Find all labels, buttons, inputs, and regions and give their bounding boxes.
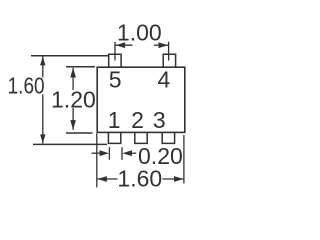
dimension 1.00: extension tick at pin4 center	[168, 42, 170, 61]
dimension 0.20: right leader line	[131, 152, 137, 154]
svg-text:1: 1	[108, 107, 121, 133]
svg-text:1.00: 1.00	[117, 20, 162, 46]
dimension 0.20: right extension tick (pin1 right edge)	[121, 147, 123, 160]
dimension 1.20: label background	[52, 90, 95, 108]
dimension 1.20: down arrowhead	[70, 120, 76, 130]
dimension 1.60 bottom: left arrowhead pointing left	[97, 176, 107, 182]
dimension 0.20: left arrowhead pointing right	[100, 150, 110, 156]
svg-text:1.60: 1.60	[8, 73, 45, 99]
pin 2 lead (bottom-middle)	[135, 132, 147, 143]
dimension 0.20: right arrowhead pointing left	[122, 150, 131, 156]
svg-text:1.20: 1.20	[51, 86, 96, 112]
pin 4 lead (top-right)	[163, 54, 175, 67]
dimension 1.20: up arrowhead	[70, 68, 76, 78]
svg-text:2: 2	[131, 107, 144, 133]
dimension 1.60 left: bottom extension line (bottom of pins)	[33, 143, 107, 145]
dimension 1.60 left: label background	[7, 78, 45, 95]
dimension 1.60 left: up arrowhead	[40, 56, 45, 65]
pin 1 lead (bottom-left)	[108, 132, 120, 143]
pin 5 lead (top-left)	[109, 54, 121, 67]
dimension 1.20: dimension line	[72, 68, 74, 130]
dimension 1.60 bottom: right arrowhead pointing right	[174, 176, 184, 182]
svg-text:4: 4	[158, 66, 171, 92]
dimension 0.20: left extension tick (pin1 left edge)	[108, 147, 110, 160]
dimension 1.60 bottom: dimension line	[97, 178, 183, 180]
dimension 0.20: left leader line	[92, 152, 102, 154]
svg-text:5: 5	[109, 66, 122, 92]
dimension 1.60 bottom: right extension line (body right edge)	[183, 135, 185, 183]
dimension 1.60 left: down arrowhead	[40, 134, 45, 143]
dimension 1.20: top extension line (body top)	[66, 66, 95, 68]
dimension 1.00: left arrowhead	[116, 42, 126, 48]
dimension 1.60 left: dimension line	[42, 56, 44, 143]
svg-text:1.60: 1.60	[117, 166, 162, 192]
package body outline	[97, 67, 185, 132]
svg-text:3: 3	[153, 107, 166, 133]
dimension 1.00: dimension line left segment	[115, 44, 133, 46]
dimension 1.60 bottom: label background	[118, 170, 163, 188]
dimension 1.00: dimension line right segment	[154, 44, 169, 46]
dimension 1.20: bottom extension line (body bottom)	[66, 132, 93, 134]
dimension 1.00: right arrowhead	[159, 42, 169, 48]
pin 3 lead (bottom-right)	[162, 132, 174, 143]
dimension 1.00: extension tick at pin5 center	[114, 42, 116, 61]
dimension 1.60 bottom: left extension line (body left edge)	[96, 133, 98, 187]
dimension 1.60 left: top extension line (top of pins)	[31, 55, 109, 57]
